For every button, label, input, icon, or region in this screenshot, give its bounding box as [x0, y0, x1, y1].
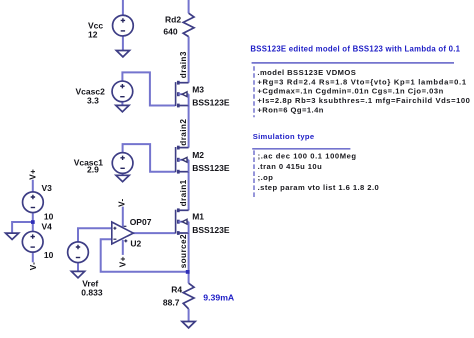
svg-text:BSS123E: BSS123E	[192, 225, 230, 235]
svg-text:BSS123E: BSS123E	[192, 163, 230, 173]
svg-text:drain1: drain1	[179, 179, 188, 206]
svg-text:;.ac dec 100 0.1 100Meg: ;.ac dec 100 0.1 100Meg	[258, 152, 357, 161]
svg-text:Rd2: Rd2	[165, 14, 181, 24]
svg-text:.model BSS123E VDMOS: .model BSS123E VDMOS	[257, 68, 356, 77]
svg-text:V4: V4	[42, 222, 53, 232]
svg-text:+Ron=6 Qg=1.4n: +Ron=6 Qg=1.4n	[257, 105, 323, 114]
svg-text:640: 640	[163, 26, 177, 36]
svg-text:M3: M3	[192, 85, 204, 95]
svg-text:3.3: 3.3	[87, 95, 99, 105]
svg-text:88.7: 88.7	[163, 297, 180, 307]
svg-text:0.833: 0.833	[81, 287, 103, 297]
svg-text:M1: M1	[192, 212, 204, 222]
svg-text:V3: V3	[42, 183, 53, 193]
svg-text:2.9: 2.9	[87, 164, 99, 174]
svg-text:drain2: drain2	[179, 119, 188, 146]
svg-text:Simulation type: Simulation type	[253, 132, 315, 141]
svg-text:OP07: OP07	[130, 217, 152, 227]
svg-text:drain3: drain3	[179, 51, 188, 78]
svg-text:+Rg=3 Rd=2.4 Rs=1.8 Vto={vto}: +Rg=3 Rd=2.4 Rs=1.8 Vto={vto} Kp=1 lambd…	[257, 77, 466, 86]
svg-text:+Is=2.8p Rb=3 ksubthres=.1 mfg: +Is=2.8p Rb=3 ksubthres=.1 mfg=Fairchild…	[257, 96, 470, 105]
svg-text:source2: source2	[179, 234, 188, 268]
svg-text:12: 12	[88, 30, 98, 40]
svg-text:V-: V-	[29, 262, 38, 271]
svg-text:BSS123E edited model of BSS123: BSS123E edited model of BSS123 with Lamb…	[250, 45, 460, 54]
svg-text:R4: R4	[171, 285, 182, 295]
svg-text:10: 10	[44, 211, 54, 221]
svg-text:M2: M2	[192, 150, 204, 160]
svg-text:.step param vto list 1.6 1.8 2: .step param vto list 1.6 1.8 2.0	[258, 183, 380, 192]
svg-text:BSS123E: BSS123E	[192, 98, 230, 108]
svg-text:V-: V-	[117, 198, 126, 207]
svg-text:10: 10	[44, 250, 54, 260]
svg-text:.tran 0 415u 10u: .tran 0 415u 10u	[258, 162, 323, 171]
svg-text:V+: V+	[119, 256, 128, 267]
svg-text:+Cgdmax=.1n Cgdmin=.01n Cgs=.1: +Cgdmax=.1n Cgdmin=.01n Cgs=.1n Cjo=.03n	[257, 87, 443, 96]
svg-text:9.39mA: 9.39mA	[203, 292, 235, 302]
svg-text:U2: U2	[130, 239, 141, 249]
svg-text:;.op: ;.op	[258, 173, 274, 182]
svg-text:V+: V+	[28, 169, 37, 180]
